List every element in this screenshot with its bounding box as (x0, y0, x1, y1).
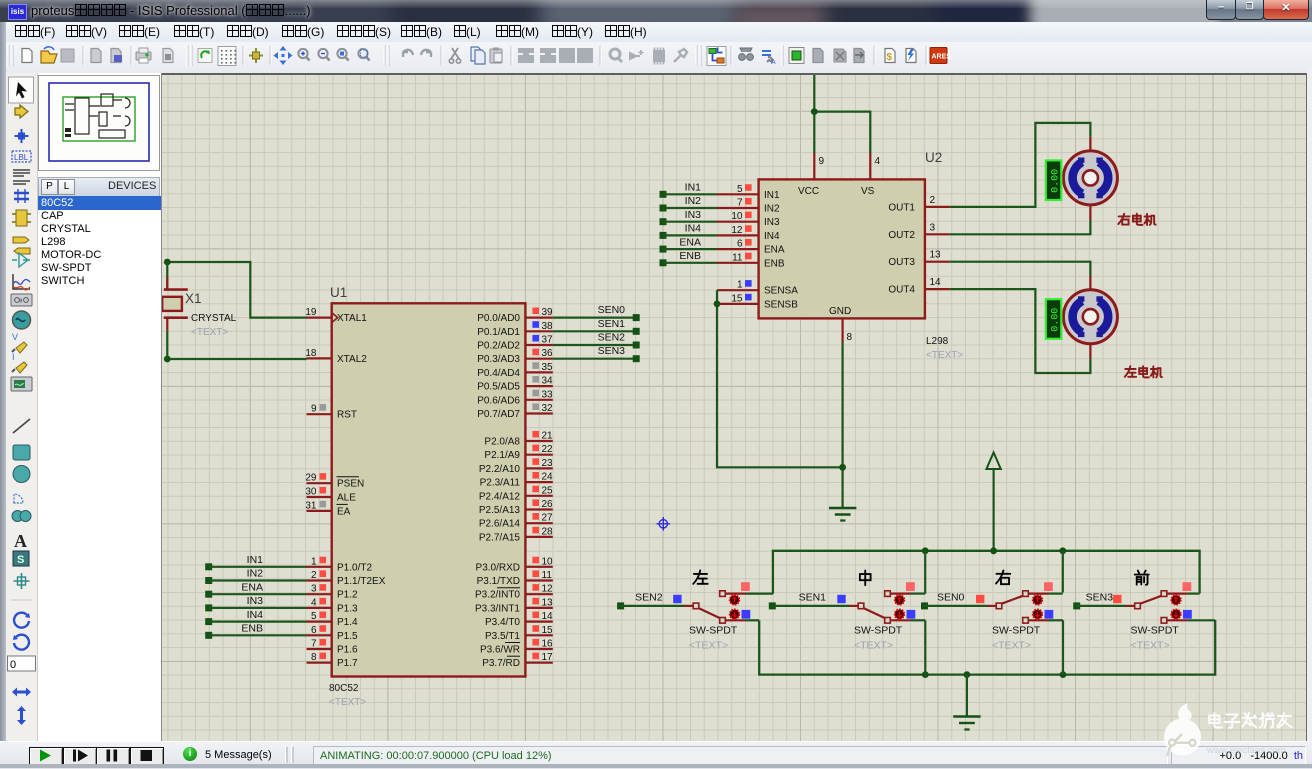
device SWITCH (38, 275, 163, 288)
svg-text:SEN2: SEN2 (598, 332, 626, 344)
svg-text:SEN1: SEN1 (598, 318, 626, 330)
svg-text:VCC: VCC (798, 186, 819, 197)
motor pin stubs left motor (1089, 276, 1091, 359)
left tool: 2D box (13, 445, 30, 460)
watermark elecfans logo (1140, 690, 1312, 768)
label SW2 position (Chinese) (860, 570, 871, 585)
pin 6 ENA of U2 (717, 239, 785, 256)
svg-text:IN3: IN3 (247, 595, 264, 607)
svg-text:37: 37 (542, 335, 554, 346)
pin 23 P2.2/A10 of U1 (479, 458, 553, 475)
left tool: component mode (15, 105, 28, 118)
wire SW2 top contact to rail (911, 592, 926, 594)
svg-text:P1.2: P1.2 (337, 590, 358, 601)
toolbar: goto sheet (854, 49, 864, 63)
device L298 (38, 236, 163, 249)
origin marker (657, 517, 671, 531)
toolbar: new sheet (813, 49, 823, 63)
simulation play button (29, 747, 63, 766)
toolbar: zoom in (298, 49, 307, 58)
svg-text:U1: U1 (330, 285, 347, 300)
pin 15 SENSB of U2 (717, 293, 798, 310)
left tool: 2D closed path (12, 511, 23, 522)
pin 3 OUT2 of U2 (888, 222, 950, 241)
pin 39 P0.0/AD0 of U1 (477, 307, 553, 324)
svg-text:13: 13 (930, 250, 942, 261)
toolbar: export section (111, 49, 121, 63)
svg-text:IN3: IN3 (685, 209, 702, 221)
terminal SEN1 at SW2 (769, 602, 776, 609)
svg-text:19: 19 (305, 307, 317, 318)
svg-text:35: 35 (542, 362, 554, 373)
toolbar: property assignment tool (762, 51, 771, 55)
node VCC-VS junction (811, 108, 818, 115)
pin 5 IN1 of U2 (717, 184, 780, 201)
device SW-SPDT (38, 262, 163, 275)
wire SW3 bottom contact to rail (1049, 619, 1064, 621)
toolbar: redo (421, 50, 431, 57)
svg-text:P3.0/RXD: P3.0/RXD (476, 562, 520, 573)
svg-text:PSEN: PSEN (337, 479, 364, 490)
svg-text:11: 11 (732, 252, 743, 263)
toolbar: block move (540, 48, 556, 63)
svg-text:11: 11 (542, 570, 553, 581)
label right motor (Chinese) (1118, 214, 1155, 225)
pin 10 P3.0/RXD of U1 (476, 556, 554, 573)
svg-text:3: 3 (930, 222, 936, 233)
svg-text:ENA: ENA (679, 236, 701, 248)
svg-text:IN4: IN4 (247, 609, 264, 621)
pin 17 P3.7/RD of U1 (482, 652, 553, 669)
svg-text:CRYSTAL: CRYSTAL (191, 313, 237, 324)
wire ENA to U1 (209, 593, 307, 595)
svg-text:9: 9 (311, 404, 317, 415)
svg-text:SENSA: SENSA (764, 286, 798, 297)
wire VCC rail to U2 (813, 74, 815, 154)
node GND junction under U2 (839, 464, 846, 471)
wire IN2 to U2 (663, 207, 717, 209)
toolbar: block delete (577, 48, 593, 63)
svg-text:30: 30 (305, 487, 317, 498)
svg-text:ENB: ENB (764, 258, 785, 269)
wire OUT1 to right motor (950, 123, 1091, 207)
svg-text:ARES: ARES (932, 54, 952, 61)
devices list header (38, 177, 160, 197)
pin 1 SENSA of U2 (717, 280, 798, 297)
svg-text:SEN0: SEN0 (937, 592, 965, 604)
terminal SEN0 at SW3 (921, 602, 928, 609)
svg-text:ALE: ALE (337, 493, 356, 504)
wire SW2 bottom contact to rail (911, 619, 926, 621)
pin 25 P2.4/A12 of U1 (479, 485, 553, 502)
wire OUT4 to left motor (950, 289, 1091, 373)
svg-text:P2.0/A8: P2.0/A8 (484, 437, 520, 448)
logic state square SW2 bottom contact (907, 610, 916, 619)
left tool: mirror vertical (17, 706, 26, 725)
svg-text:SEN2: SEN2 (635, 592, 663, 604)
toolbar: wire autorouter (pressed) (707, 47, 726, 66)
svg-text:P0.2/AD2: P0.2/AD2 (477, 341, 520, 352)
toolbar: electrical rule check (906, 49, 916, 63)
pin 21 P2.0/A8 of U1 (484, 431, 553, 448)
terminal ENB at U1 (205, 632, 212, 639)
wire IN3 to U1 (209, 607, 307, 609)
svg-text:17: 17 (542, 652, 554, 663)
svg-text:<TEXT>: <TEXT> (854, 640, 893, 652)
svg-text:RST: RST (337, 410, 357, 421)
pin 12 IN4 of U2 (717, 225, 780, 242)
pin 5 P1.4 of U1 (307, 611, 359, 628)
svg-text:21: 21 (542, 431, 554, 442)
pin 28 P2.7/A15 of U1 (479, 526, 553, 543)
pin 4 P1.3 of U1 (307, 597, 359, 614)
device MOTOR-DC (38, 249, 163, 262)
svg-text:SW-SPDT: SW-SPDT (689, 625, 738, 637)
terminal ENB at U2 (660, 259, 667, 266)
pin 29 PSEN of U1 (305, 473, 364, 490)
svg-text:P3.5/T1: P3.5/T1 (485, 631, 520, 642)
logic state square SEN0 pole (976, 595, 984, 603)
svg-text:27: 27 (542, 513, 554, 524)
svg-text:28: 28 (542, 526, 554, 537)
wire bottom rail GND (759, 620, 1215, 675)
crystal X1 (162, 262, 188, 359)
toolbar: block rotate (559, 48, 575, 63)
pin 8 P1.7 of U1 (307, 652, 359, 669)
svg-text:U2: U2 (925, 150, 942, 165)
toolbar: save file (61, 49, 74, 62)
svg-text:15: 15 (731, 293, 743, 304)
svg-text:P2.5/A13: P2.5/A13 (479, 505, 521, 516)
pin 38 P0.1/AD1 of U1 (477, 321, 553, 338)
svg-text:LBL: LBL (14, 153, 29, 162)
wire SEN1 to SW2 pole (772, 605, 849, 607)
wire SW2 bottom contact riser (924, 620, 926, 674)
left tool: selection pointer (active) (9, 77, 34, 103)
svg-text:38: 38 (542, 321, 554, 332)
message icon (183, 747, 197, 761)
left tool: terminal mode (13, 237, 29, 243)
svg-text:SEN3: SEN3 (598, 345, 626, 357)
pin 9 RST of U1 (307, 404, 358, 421)
logic state square SW1 bottom contact (742, 610, 751, 619)
terminal SEN2 (633, 342, 640, 349)
svg-text:P3.2/INT0: P3.2/INT0 (475, 590, 520, 601)
wire IN4 to U2 (663, 234, 717, 236)
switch SW4 SW-SPDT (1126, 591, 1188, 623)
power terminal arrow (986, 453, 1000, 551)
wire SW2 top contact riser (924, 551, 926, 594)
animating status text (320, 750, 552, 762)
svg-text:P1.3: P1.3 (337, 603, 358, 614)
svg-text:8: 8 (847, 332, 853, 343)
svg-text:2: 2 (311, 570, 317, 581)
svg-text:<TEXT>: <TEXT> (689, 640, 728, 652)
wire SW4 bottom contact to rail (1187, 619, 1215, 621)
wire U1 to terminal SEN3 (553, 358, 636, 360)
svg-text:16: 16 (542, 639, 554, 650)
left tool: generator mode (13, 311, 31, 329)
svg-text:10: 10 (731, 211, 743, 222)
toolbar: new file (22, 49, 32, 63)
pin 24 P2.3/A11 of U1 (480, 472, 553, 489)
IC U1 80C52 body (332, 303, 526, 676)
simulation pause button (96, 747, 130, 766)
left tool: tape recorder mode (11, 294, 32, 306)
svg-text:P2.3/A11: P2.3/A11 (480, 478, 521, 489)
wire SW1 top contact to rail (746, 592, 773, 594)
left tool: 2D marker (14, 573, 30, 589)
terminal SEN3 (633, 355, 640, 362)
logic state square SW3 top contact (1044, 582, 1053, 591)
pin 15 P3.5/T1 of U1 (485, 625, 553, 642)
terminal IN2 at U2 (660, 205, 667, 212)
toolbar: packaging tool (653, 50, 665, 62)
svg-text:29: 29 (305, 473, 317, 484)
svg-text:EA: EA (337, 506, 351, 517)
wire IN4 to U1 (209, 620, 307, 622)
left tool: junction dot mode (15, 129, 29, 143)
left tool: rotate clockwise (14, 613, 29, 628)
wire U1 to terminal SEN2 (553, 344, 636, 346)
wire ground stem at bottom rail (966, 675, 968, 716)
wire SW3 top contact riser (1062, 551, 1064, 593)
svg-text:9: 9 (20, 299, 23, 305)
svg-text:P1.1/T2EX: P1.1/T2EX (337, 576, 386, 587)
toolbar: origin (255, 48, 257, 63)
toolbar: remove sheet (834, 49, 846, 62)
svg-text:33: 33 (542, 389, 554, 400)
svg-text:SEN0: SEN0 (598, 304, 626, 316)
pin 31 EA of U1 (305, 500, 350, 517)
motor pin stubs right motor (1089, 137, 1091, 220)
svg-text:SW-SPDT: SW-SPDT (854, 625, 903, 637)
svg-text:P0.0/AD0: P0.0/AD0 (477, 313, 520, 324)
node top rail at power arrow (990, 547, 997, 554)
svg-text:<TEXT>: <TEXT> (926, 350, 963, 361)
node SENSB junction (714, 301, 721, 308)
device 80C52 (selected) (38, 196, 163, 210)
svg-text:10: 10 (542, 556, 554, 567)
svg-text:IN3: IN3 (764, 217, 780, 228)
node crystal bottom (164, 356, 171, 363)
left tool: rotate anticlockwise (14, 635, 29, 650)
svg-text:5: 5 (311, 611, 317, 622)
left tool: 2D circle (13, 466, 30, 483)
svg-text:1: 1 (311, 556, 317, 567)
node bottom rail at ground (964, 671, 971, 678)
svg-text:P0.4/AD4: P0.4/AD4 (477, 368, 520, 379)
svg-text:2: 2 (930, 195, 936, 206)
wire IN1 to U1 (209, 566, 307, 568)
toolbar: paste (490, 49, 502, 63)
svg-text:80C52: 80C52 (329, 683, 359, 694)
toolbar: block copy (518, 48, 534, 63)
svg-text:23: 23 (542, 458, 554, 469)
svg-text:P1.6: P1.6 (337, 645, 358, 656)
svg-text:5: 5 (737, 184, 743, 195)
wire VCC to VS (814, 112, 870, 153)
pin 11 ENB of U2 (717, 252, 785, 269)
svg-text:P2.2/A10: P2.2/A10 (479, 464, 521, 475)
svg-text:A: A (771, 59, 776, 66)
svg-text:P2.4/A12: P2.4/A12 (479, 491, 521, 502)
svg-text:P2.7/A15: P2.7/A15 (479, 532, 521, 543)
toolbar: open file (41, 51, 57, 63)
pin 33 P0.6/AD6 of U1 (477, 389, 553, 406)
toolbar: zoom all (337, 49, 346, 58)
wire U1 to terminal SEN0 (553, 317, 636, 319)
ground symbol under U2 (829, 508, 856, 521)
pin 9 VCC of U2 (798, 153, 825, 197)
svg-text:IN4: IN4 (685, 223, 702, 235)
left tool: 2D arc (14, 494, 23, 503)
terminal IN2 at U1 (205, 577, 212, 584)
svg-text:4: 4 (875, 156, 881, 167)
svg-text:IN1: IN1 (247, 554, 264, 566)
toolbar: import section (91, 49, 101, 63)
label left motor (Chinese) (1125, 366, 1162, 377)
svg-text:ENB: ENB (679, 250, 701, 262)
rpm display of left motor (1046, 299, 1062, 339)
left tool: device pin mode (12, 259, 30, 261)
terminal IN1 at U1 (205, 563, 212, 570)
svg-text:IN1: IN1 (764, 190, 780, 201)
svg-text:<TEXT>: <TEXT> (992, 640, 1031, 652)
motor right body (1063, 151, 1117, 205)
svg-text:26: 26 (542, 499, 554, 510)
wire crystal bottom net to XTAL2 (167, 358, 306, 360)
toolbar: print (136, 52, 151, 60)
logic state square SW4 bottom contact (1183, 610, 1192, 619)
toolbar: pick parts (610, 49, 620, 59)
left tool: graph mode (13, 274, 30, 289)
wire OUT2 to right motor (950, 220, 1091, 234)
svg-text:14: 14 (542, 611, 554, 622)
wire ENB to U1 (209, 634, 307, 636)
device CRYSTAL (38, 223, 163, 236)
wire ENA to U2 (663, 248, 717, 250)
toolbar: copy (471, 47, 481, 61)
pin 18 XTAL2 of U1 (305, 348, 367, 365)
toolbar: undo (403, 50, 413, 57)
svg-text:A: A (14, 531, 27, 551)
logic state square SW2 top contact (906, 582, 915, 591)
wire ENB to U2 (663, 262, 717, 264)
pin 2 P1.1/T2EX of U1 (307, 570, 386, 587)
svg-text:S: S (17, 554, 24, 566)
svg-text:I: I (12, 352, 15, 362)
left tool: 2D line (13, 419, 30, 433)
motor left body (1063, 290, 1117, 344)
terminal ENA at U1 (205, 591, 212, 598)
svg-text:12: 12 (731, 225, 743, 236)
svg-text:ENA: ENA (241, 581, 263, 593)
wire SENSA-SENSB to GND net (717, 290, 843, 467)
svg-text:P2.1/A9: P2.1/A9 (484, 450, 520, 461)
pin 36 P0.3/AD3 of U1 (477, 348, 553, 365)
pin 19 XTAL1 of U1 (305, 307, 367, 324)
left tool: 2D symbol (13, 551, 29, 566)
svg-text:P1.4: P1.4 (337, 617, 358, 628)
label SW3 position (Chinese) (996, 570, 1010, 584)
pin 10 IN3 of U2 (717, 211, 780, 228)
svg-text:OUT4: OUT4 (888, 285, 915, 296)
logic state square SW3 bottom contact (1045, 610, 1054, 619)
wire IN3 to U2 (663, 221, 717, 223)
svg-text:XTAL1: XTAL1 (337, 313, 367, 324)
svg-text:IN4: IN4 (764, 231, 780, 242)
svg-text:VS: VS (861, 186, 875, 197)
logic state square SW4 top contact (1183, 582, 1192, 591)
svg-text:6: 6 (311, 625, 317, 636)
coordinates display (1178, 750, 1303, 762)
label SW1 position (Chinese) (693, 570, 707, 583)
svg-text:36: 36 (542, 348, 554, 359)
logic state square SW1 top contact (741, 582, 750, 591)
svg-text:$: $ (887, 52, 893, 63)
pin 14 OUT4 of U2 (888, 277, 950, 296)
pin 8 GND of U2 (829, 306, 853, 343)
terminal SEN2 at SW1 (617, 602, 624, 609)
svg-text:0: 0 (10, 659, 16, 671)
svg-text:P3.6/WR: P3.6/WR (480, 645, 520, 656)
pin 7 IN2 of U2 (717, 198, 780, 215)
left tool: text script mode (13, 170, 30, 184)
svg-text:IN2: IN2 (247, 568, 264, 580)
wire IN1 to U2 (663, 193, 717, 195)
svg-text:OUT1: OUT1 (888, 202, 915, 213)
wire SW3 top contact to rail (1049, 592, 1063, 594)
svg-text:X1: X1 (185, 291, 202, 306)
terminal SEN1 (633, 328, 640, 335)
logic state square SEN3 pole (1113, 595, 1121, 603)
svg-text:25: 25 (542, 485, 554, 496)
left tool: mirror horizontal (12, 688, 31, 697)
svg-text:8: 8 (311, 652, 317, 663)
node top rail at SW3 riser (1059, 547, 1066, 554)
svg-text:P3.4/T0: P3.4/T0 (485, 617, 520, 628)
svg-text:<TEXT>: <TEXT> (1131, 640, 1170, 652)
svg-text:39: 39 (542, 307, 554, 318)
terminal SEN3 at SW4 (1073, 602, 1080, 609)
svg-text:P3.1/TXD: P3.1/TXD (477, 576, 520, 587)
pin 6 P1.5 of U1 (307, 625, 359, 642)
svg-text:P0.3/AD3: P0.3/AD3 (477, 354, 520, 365)
toolbar: ARES netlist transfer (930, 48, 947, 64)
svg-text:3: 3 (311, 584, 317, 595)
svg-text:XTAL2: XTAL2 (337, 354, 367, 365)
logic state square SEN2 pole (673, 595, 681, 603)
svg-text:18: 18 (305, 348, 317, 359)
node top rail at SW2 riser (922, 547, 929, 554)
pin 32 P0.7/AD7 of U1 (477, 403, 553, 420)
pin 35 P0.4/AD4 of U1 (477, 362, 553, 379)
svg-text:www.elecfans.com: www.elecfans.com (1206, 745, 1286, 756)
svg-text:IN1: IN1 (685, 182, 702, 194)
pin 34 P0.5/AD5 of U1 (477, 376, 553, 393)
pin 4 VS of U2 (861, 153, 881, 197)
pin 12 P3.2/INT0 of U1 (475, 584, 553, 601)
wire SW1 bottom contact to rail (746, 619, 760, 621)
pin 37 P0.2/AD2 of U1 (477, 335, 553, 352)
svg-text:ENB: ENB (241, 623, 263, 635)
svg-text:7: 7 (737, 198, 743, 209)
pin 14 P3.4/T0 of U1 (485, 611, 553, 628)
svg-text:12: 12 (542, 584, 554, 595)
wire OUT3 to left motor (950, 262, 1091, 276)
rpm display of right motor (1046, 160, 1062, 200)
